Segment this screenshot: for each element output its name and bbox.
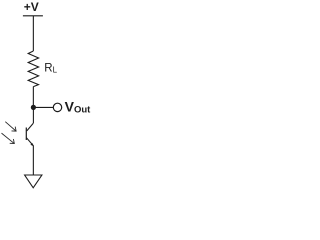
collector diagonal [27,123,34,131]
wire node to output terminal [33,106,53,108]
svg-text:RL: RL [44,63,57,75]
power rail bar [23,15,43,17]
ground [25,175,42,188]
wire resistor to node [32,87,34,108]
light arrow 2 [2,133,15,143]
wire from +V to resistor [32,16,34,51]
svg-text:VOut: VOut [65,99,92,116]
output terminal circle [53,103,61,111]
junction dot node [31,105,36,110]
resistor RL [28,51,38,87]
base bar [25,128,27,141]
emitter wire to ground [32,146,34,175]
svg-text:+V: +V [24,0,39,14]
emitter arrowhead [30,143,33,146]
light arrow 1 [5,122,16,131]
emitter diagonal [26,138,33,146]
phototransistor Q1 collector wire [32,107,34,123]
